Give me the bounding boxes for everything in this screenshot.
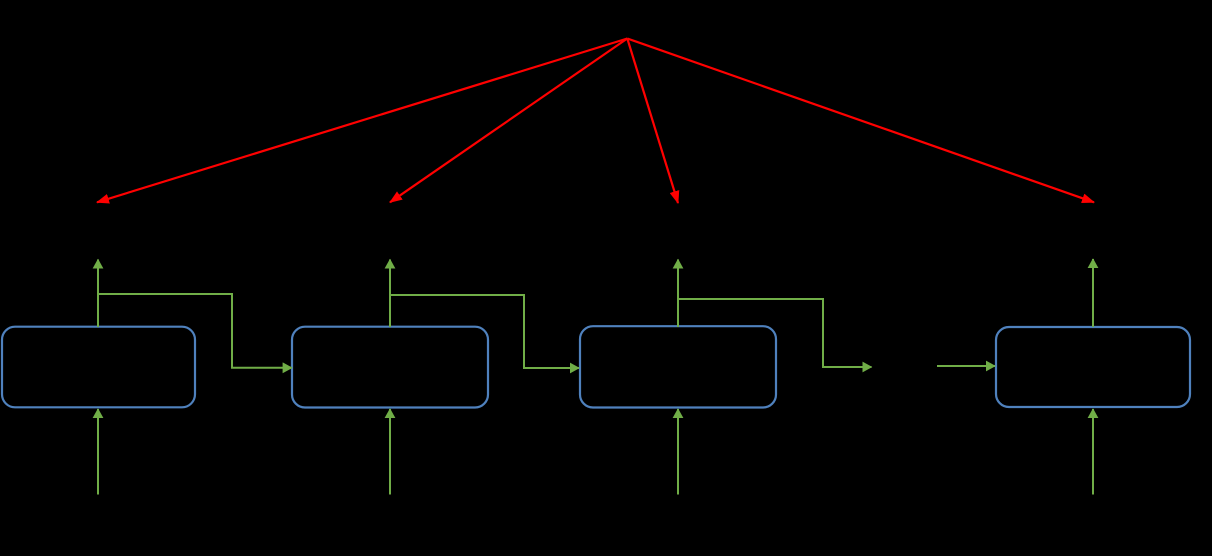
green input arrow below box 4 <box>1092 409 1094 495</box>
box 4 <box>996 327 1190 407</box>
box 2 <box>292 327 488 408</box>
green output arrow above box 1 <box>97 260 99 328</box>
green input arrow below box 1 <box>97 409 99 495</box>
red fan arrow 1 <box>97 39 627 203</box>
green recurrent elbow from box 1 to box 2 <box>98 294 292 368</box>
green recurrent elbow from box 2 to box 3 <box>390 295 579 368</box>
green input arrow below box 2 <box>389 409 391 495</box>
red fan arrow 2 <box>390 39 627 203</box>
red fan arrow 3 <box>627 39 678 204</box>
green recurrent elbow from box 3 outward <box>678 299 872 367</box>
green output arrow above box 3 <box>677 260 679 328</box>
green recurrent arrow into box 4 <box>937 365 995 367</box>
green output arrow above box 4 <box>1092 259 1094 327</box>
box 3 <box>580 326 776 407</box>
red fan arrow 4 <box>627 39 1094 203</box>
box 1 <box>2 327 195 408</box>
green output arrow above box 2 <box>389 260 391 328</box>
green input arrow below box 3 <box>677 409 679 495</box>
